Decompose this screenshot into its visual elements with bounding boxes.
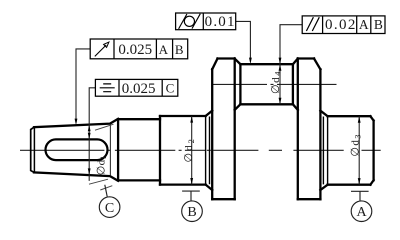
taper bottom edge xyxy=(34,172,118,180)
leader from cylindricity frame xyxy=(236,21,251,60)
main axis centerline xyxy=(20,149,381,151)
crankpin to web2 top chamfer xyxy=(293,59,298,65)
taper top edge xyxy=(34,119,118,127)
web2 left edge xyxy=(297,59,299,200)
svg-text:B: B xyxy=(374,17,383,32)
crankpin axis centerline xyxy=(213,83,337,85)
taper end chamfer line xyxy=(109,125,111,176)
datum C oblique bar xyxy=(100,186,112,190)
web2-d3 chamfer diagonals xyxy=(320,111,327,190)
dim d1 line merged with symmetry frame leader xyxy=(89,88,95,181)
datum A symbol xyxy=(351,191,372,221)
d3 journal top edge xyxy=(328,115,371,117)
d3 arrows xyxy=(358,116,361,123)
datum C symbol xyxy=(99,185,120,218)
svg-text:0.01: 0.01 xyxy=(205,14,236,30)
leader arrow on taper surface xyxy=(75,119,78,126)
leader from parallelism frame + dim d4 line xyxy=(280,25,302,105)
svg-text:C: C xyxy=(105,201,114,216)
d2 journal bottom edge xyxy=(160,183,206,185)
svg-text:∅d2: ∅d2 xyxy=(183,137,196,162)
keyway slot xyxy=(45,139,107,160)
d2 journal step face xyxy=(159,116,161,185)
svg-text:B: B xyxy=(187,205,196,220)
svg-text:A: A xyxy=(356,205,367,220)
svg-text:0.02: 0.02 xyxy=(325,17,357,33)
web1 to pin top chamfer xyxy=(235,59,241,65)
section M top edge xyxy=(118,118,160,120)
web2 bottom edge xyxy=(298,198,321,200)
oblique extension line top xyxy=(95,124,114,130)
d4 bottom arrow (down) xyxy=(279,98,282,105)
d4 top arrow (up) xyxy=(279,64,282,71)
feature control frame 1: circular runout 0.025 A B xyxy=(90,39,188,59)
section M bottom edge xyxy=(118,179,160,181)
crankpin bottom edge xyxy=(240,103,293,105)
web1 bottom edge xyxy=(212,198,235,200)
shaft end chamfer line xyxy=(33,128,35,173)
keyway leader arrow (down) xyxy=(88,133,91,140)
feature control frame 4: parallelism 0.02 A B xyxy=(302,16,385,34)
feature control frame 2: symmetry 0.025 C xyxy=(95,79,177,96)
web1 right edge xyxy=(234,59,236,200)
symmetry symbol xyxy=(100,84,115,92)
svg-text:B: B xyxy=(175,42,184,57)
leader arrow (down) onto pin xyxy=(279,58,282,65)
web1 top edge xyxy=(218,57,235,59)
svg-text:A: A xyxy=(359,17,369,32)
web2 top-right chamfer xyxy=(314,59,320,70)
d3 right end chamfers and cap xyxy=(370,116,373,185)
d1 top arrow (up) xyxy=(88,125,91,132)
crankpin left edge xyxy=(239,64,241,104)
svg-text:∅d3: ∅d3 xyxy=(350,133,363,157)
cylindricity symbol xyxy=(179,14,201,29)
web1 left edge xyxy=(211,69,213,199)
shaft outline: tapered left end with cap xyxy=(31,59,374,200)
d2 end chamfer lines xyxy=(206,117,210,185)
crankpin bottom-left chamfer xyxy=(235,104,241,110)
dim d2 line xyxy=(191,116,193,185)
oblique extension line bottom xyxy=(89,179,108,184)
web1 top chamfer xyxy=(212,59,217,70)
d2 journal top edge xyxy=(160,115,206,117)
datum B symbol xyxy=(182,191,203,221)
crankpin top edge xyxy=(240,63,293,65)
leader arrow (down) onto pin xyxy=(249,58,252,65)
d2-web1 chamfer diagonals xyxy=(206,111,213,190)
svg-text:∅d1: ∅d1 xyxy=(95,155,108,175)
d1 bottom arrow (down) xyxy=(88,168,91,175)
crankpin bottom-right chamfer xyxy=(293,104,298,110)
web2 right edge xyxy=(319,69,321,199)
web2 top edge xyxy=(298,57,314,59)
d3 journal bottom edge xyxy=(328,184,371,186)
dim d3 line xyxy=(358,116,360,185)
d3 end chamfer lines xyxy=(323,117,327,185)
svg-text:C: C xyxy=(166,81,175,96)
svg-text:0.025: 0.025 xyxy=(122,81,156,97)
crankpin right edge xyxy=(292,64,294,104)
svg-text:A: A xyxy=(159,42,169,57)
svg-text:∅d4: ∅d4 xyxy=(270,70,283,94)
leader from runout frame xyxy=(76,49,90,122)
d2 arrows xyxy=(190,116,193,123)
parallelism symbol xyxy=(306,17,319,31)
feature control frame 3: cylindricity 0.01 xyxy=(176,13,236,30)
runout symbol arrow xyxy=(95,45,106,56)
svg-text:0.025: 0.025 xyxy=(118,42,152,58)
section M face xyxy=(117,119,119,180)
